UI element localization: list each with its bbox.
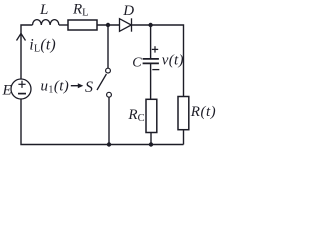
svg-text:u1(t): u1(t) (41, 78, 70, 95)
wire RC to bottom rail (150, 133, 152, 145)
svg-text:R(t): R(t) (190, 104, 216, 120)
switch S (97, 68, 111, 97)
capacitor C (143, 59, 159, 64)
arrow to S (71, 83, 84, 88)
wire capacitor to RC (150, 63, 152, 99)
resistor RL (68, 20, 97, 30)
svg-text:L: L (39, 2, 48, 18)
node B junction dot (148, 23, 152, 27)
svg-text:iL(t): iL(t) (29, 36, 56, 54)
wire node A down to switch (107, 25, 109, 68)
wire R(t) to bottom rail (183, 130, 185, 145)
node junction dot RC-bottom (149, 142, 153, 146)
wire node B to top-right corner and down right side (151, 25, 184, 97)
wire between L and RL (59, 24, 68, 26)
inductor L coil (33, 20, 59, 25)
capacitor plus sign (152, 46, 158, 52)
svg-text:D: D (122, 3, 134, 19)
svg-text:C: C (132, 56, 142, 71)
wire switch to bottom rail (108, 97, 110, 144)
wire top-left segment (21, 25, 33, 79)
wire node B down to capacitor (150, 25, 152, 59)
current arrow iL (17, 34, 26, 41)
wire RL to node A (97, 24, 120, 26)
node A junction dot (106, 23, 110, 27)
svg-text:v(t): v(t) (162, 53, 184, 69)
node junction dot switch-bottom (107, 142, 111, 146)
resistor R(t) (178, 97, 189, 130)
wire E to bottom-left corner and bottom rail (21, 99, 184, 145)
svg-text:S: S (85, 79, 93, 96)
resistor RC (146, 99, 157, 132)
wire diode to node B (132, 24, 151, 26)
svg-text:E: E (2, 82, 12, 98)
diode D (120, 18, 132, 31)
source E (11, 79, 31, 99)
capacitor minus sign (152, 69, 159, 71)
